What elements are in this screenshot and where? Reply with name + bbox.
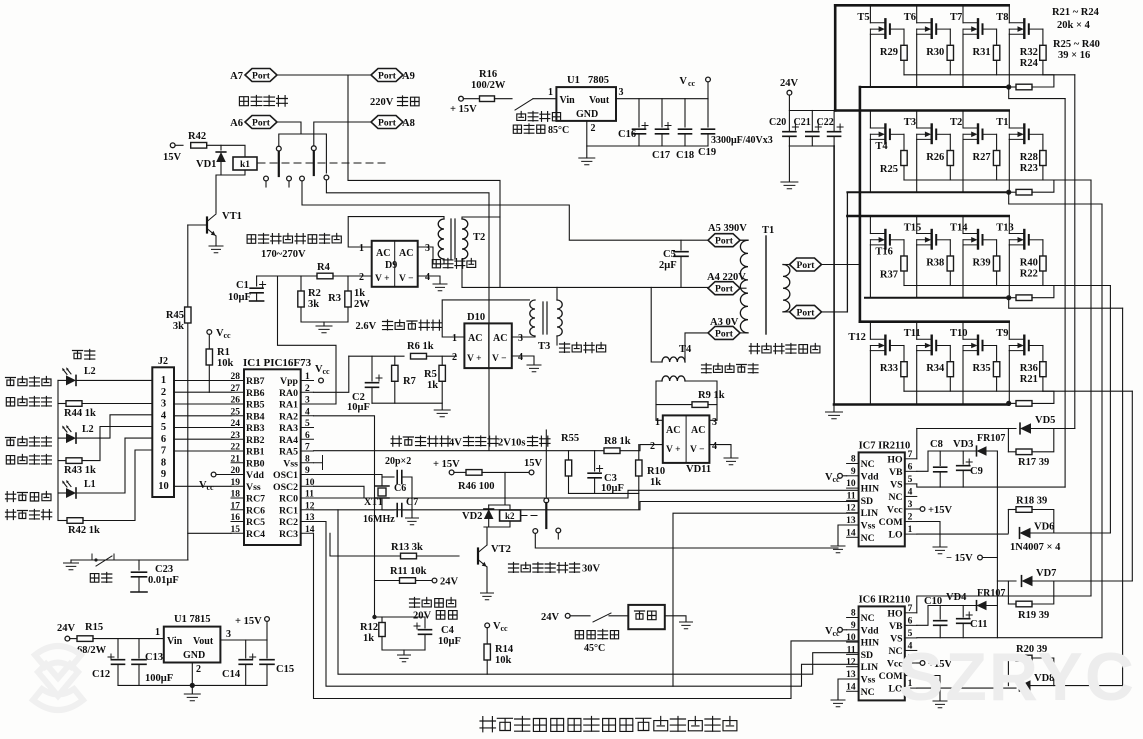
svg-text:15V: 15V <box>163 152 182 163</box>
svg-text:10k: 10k <box>217 358 234 369</box>
capacitor C5 <box>674 252 688 257</box>
svg-text:RC6: RC6 <box>246 505 265 516</box>
resistor R1 <box>206 349 212 365</box>
svg-text:T6: T6 <box>904 12 916 23</box>
wire R17 line b <box>1032 429 1054 452</box>
gate resistor T7 <box>993 45 999 60</box>
wire R4 left <box>257 275 317 277</box>
svg-text:R35: R35 <box>973 363 991 374</box>
resistor R20 <box>1016 655 1032 661</box>
svg-text:R16: R16 <box>479 69 497 80</box>
capacitor C18 <box>679 129 692 134</box>
wire drain T4 <box>869 111 871 129</box>
resistor R16 <box>480 96 495 102</box>
wire gate vertical row4 <box>1131 391 1133 581</box>
wire row4 drain bus <box>860 320 1009 323</box>
driver IC6 IR2110 <box>859 606 905 700</box>
svg-text:R1: R1 <box>217 347 230 358</box>
wire C10 top <box>939 606 941 620</box>
wire C3 top <box>594 451 596 471</box>
wire C11 top <box>962 606 964 618</box>
capacitor C7 <box>397 504 402 517</box>
svg-text:NC: NC <box>861 459 875 470</box>
svg-text:VD11: VD11 <box>686 464 711 475</box>
ground C2x <box>781 182 798 189</box>
stub <box>288 181 290 187</box>
wire gnd stem <box>323 322 325 326</box>
svg-text:RA4: RA4 <box>279 435 298 446</box>
wire T1 sec bottom <box>783 311 790 313</box>
wire C2R7R5 rail <box>372 403 442 409</box>
IC6 right pin 4 NC <box>905 649 917 651</box>
contact k2 b <box>556 528 561 533</box>
svg-text:10μF: 10μF <box>438 636 461 647</box>
gate resistor T11 <box>947 362 953 377</box>
T2 winding left <box>438 219 444 259</box>
svg-text:U1: U1 <box>567 75 580 86</box>
svg-text:Port: Port <box>715 285 734 295</box>
wire C13 bot <box>138 665 140 686</box>
wire R11 right <box>416 580 433 582</box>
svg-text:R7: R7 <box>403 376 416 387</box>
svg-text:C19: C19 <box>698 147 716 158</box>
wire pair1 left <box>1007 429 1009 452</box>
capacitor C17 <box>656 129 669 134</box>
resistor R17 <box>1016 449 1032 455</box>
IC1 left pin 21 RB0 <box>231 462 244 464</box>
T1 core <box>765 236 767 334</box>
svg-text:RB5: RB5 <box>246 400 265 411</box>
title char <box>603 719 616 732</box>
IC1 right pin 9 OSC1 <box>301 474 314 476</box>
wire R18 line b <box>1032 510 1054 534</box>
svg-text:39 × 16: 39 × 16 <box>1058 50 1090 61</box>
wire drain T1 <box>1008 111 1010 129</box>
wire R44 right <box>82 403 152 405</box>
svg-text:15: 15 <box>231 525 241 535</box>
svg-text:R39: R39 <box>973 258 991 269</box>
svg-text:1k: 1k <box>363 633 374 644</box>
svg-text:C22: C22 <box>817 117 834 128</box>
resistor R18 <box>1016 507 1032 513</box>
IC6 right pin 3 Vcc <box>905 662 917 664</box>
title char <box>636 718 651 730</box>
svg-text:C11: C11 <box>970 619 988 630</box>
svg-text:VT2: VT2 <box>491 544 511 555</box>
wire drain T13 <box>1008 216 1010 234</box>
IC6 right pin 7 HO <box>905 612 917 614</box>
T4 primary <box>662 357 685 362</box>
LED L2 red/green 1 <box>66 375 76 385</box>
terminal Vcc IC7 <box>838 473 843 478</box>
resistor R6 <box>411 353 427 359</box>
svg-text:V: V <box>679 76 687 87</box>
wire start line <box>71 559 188 561</box>
wire A6 to contact <box>277 122 301 146</box>
wire gate res down T4 <box>903 167 905 181</box>
svg-text:4: 4 <box>305 407 310 417</box>
svg-text:VD3: VD3 <box>953 439 973 450</box>
svg-text:1: 1 <box>908 525 913 535</box>
svg-text:C23: C23 <box>155 564 173 575</box>
svg-text:R25 ~ R40: R25 ~ R40 <box>1053 39 1100 50</box>
gate resistor T15 <box>947 256 953 271</box>
svg-text:25: 25 <box>231 407 241 417</box>
svg-text:RC1: RC1 <box>279 505 298 516</box>
svg-text:R21: R21 <box>1020 374 1038 385</box>
wire R13 left <box>330 533 401 556</box>
capacitor C10 <box>934 621 947 626</box>
IC1 left pin 22 RB1 <box>231 450 244 452</box>
MOSFET T5 <box>870 23 885 34</box>
wire fan switch a <box>570 615 590 617</box>
wire R15 to Vin <box>93 638 164 640</box>
IC7 left pin 11 SD <box>847 499 859 501</box>
svg-text:T2: T2 <box>950 117 962 128</box>
wire R7 top <box>394 356 396 365</box>
wire R17 line a <box>1008 451 1016 453</box>
wire VD2 lead <box>488 505 490 508</box>
ground fan <box>680 622 693 629</box>
svg-text:24V: 24V <box>541 612 560 623</box>
wire gate lead T12 <box>903 346 905 361</box>
wire R7 bot <box>394 381 396 403</box>
svg-text:Port: Port <box>378 71 397 81</box>
ground 7815b <box>184 694 200 701</box>
wire source T16 <box>869 245 871 298</box>
wire D10 pin3 <box>512 336 535 337</box>
wire gate lead T13 <box>1042 240 1044 255</box>
wire drain T8 <box>1008 5 1010 23</box>
wire C20 top <box>788 111 790 132</box>
svg-text:IC6 IR2110: IC6 IR2110 <box>859 594 911 605</box>
wire gate vertical row3 <box>1109 286 1111 534</box>
svg-text:C9: C9 <box>970 466 983 477</box>
svg-text:1k: 1k <box>650 477 661 488</box>
svg-text:R19 39: R19 39 <box>1018 610 1049 621</box>
wire C19 bottom lead <box>707 134 709 146</box>
IC1 left pin 17 RC6 <box>231 509 244 511</box>
wire gate res down T9 <box>1042 378 1044 392</box>
title char <box>688 716 702 730</box>
svg-text:1: 1 <box>548 87 553 98</box>
svg-text:1N4007 × 4: 1N4007 × 4 <box>1010 542 1061 553</box>
junction batt <box>372 615 376 619</box>
svg-text:RC4: RC4 <box>246 529 265 540</box>
wire A5 hexright <box>740 239 746 241</box>
wire A5 right2 <box>740 239 746 241</box>
port A9 <box>371 69 403 82</box>
wire source T6 <box>916 34 918 87</box>
svg-text:5: 5 <box>305 419 310 429</box>
wire R43 left <box>58 460 66 462</box>
wire gate lead T11 <box>949 346 951 361</box>
svg-text:HO: HO <box>887 608 903 619</box>
wire C18 bottom lead <box>684 134 686 146</box>
resistor R2x row4 <box>1016 401 1032 407</box>
svg-text:1k: 1k <box>427 380 438 391</box>
resistor R7 <box>392 365 398 381</box>
wire k2 bottom <box>484 521 510 527</box>
wire C8 top <box>939 451 941 466</box>
svg-text:1: 1 <box>452 333 457 344</box>
svg-text:18: 18 <box>231 490 241 500</box>
svg-text:R8 1k: R8 1k <box>604 436 631 447</box>
wire VD2 bottom <box>488 519 490 527</box>
svg-text:170~270V: 170~270V <box>261 249 306 260</box>
svg-text:R22: R22 <box>1020 269 1038 280</box>
capacitor C16 <box>633 129 646 134</box>
svg-text:Vss: Vss <box>861 521 876 532</box>
port A8 <box>371 116 403 129</box>
wire k2 top <box>505 472 510 510</box>
wire A8 to contact <box>314 122 371 146</box>
wire OSC1 <box>314 475 383 487</box>
wire A3 hexleft <box>685 333 708 357</box>
svg-text:Port: Port <box>378 118 397 128</box>
IC6 right pin 6 VB <box>905 624 917 626</box>
svg-text:3: 3 <box>161 399 166 410</box>
wire gate lead T4 <box>903 134 905 149</box>
wire R5 top <box>441 356 443 365</box>
svg-text:D10: D10 <box>467 312 485 323</box>
port A4 <box>708 282 740 295</box>
IC1 left pin 23 RB2 <box>231 438 244 440</box>
wire IC7 VS line <box>917 484 1065 487</box>
wire R20 line a <box>1008 657 1016 659</box>
wire Rsrc a row4 <box>1009 402 1016 404</box>
IC7 left pin 8 NC <box>847 463 859 465</box>
resistor R42b <box>67 518 83 524</box>
terminal Vcc R1 <box>207 330 212 335</box>
wire pair3 feed <box>997 580 1016 582</box>
capacitor C3 <box>588 473 601 478</box>
svg-text:HO: HO <box>887 454 903 465</box>
ground VT2 <box>481 593 494 600</box>
svg-text:10μF: 10μF <box>228 292 251 303</box>
wire RC3 bus <box>314 533 859 698</box>
wire VD6 line b <box>1031 532 1111 534</box>
wire gate res down T7 <box>996 61 998 75</box>
wire drain T6 <box>916 5 918 23</box>
svg-text:AC: AC <box>399 248 413 259</box>
svg-text:T3: T3 <box>904 117 916 128</box>
svg-text:Vout: Vout <box>589 95 610 106</box>
T3 winding right <box>557 300 562 336</box>
svg-text:R9 1k: R9 1k <box>698 390 725 401</box>
wire U1 pin2 <box>586 121 588 158</box>
svg-text:R13 3k: R13 3k <box>391 542 423 553</box>
svg-text:13: 13 <box>846 516 856 526</box>
wire gate res down T14 <box>996 272 998 286</box>
svg-text:R12: R12 <box>360 622 378 633</box>
resistor R2 <box>298 291 304 307</box>
svg-text:3: 3 <box>619 87 624 98</box>
wire J2 pin6 to IC1 <box>174 438 231 440</box>
junction source row4 <box>1006 401 1011 406</box>
wire source T11 <box>916 351 918 404</box>
svg-text:12: 12 <box>846 658 856 668</box>
wire C20 bot <box>788 137 790 147</box>
svg-text:Vss: Vss <box>246 482 261 493</box>
svg-text:Port: Port <box>252 118 271 128</box>
wire source T15 <box>916 245 918 298</box>
title char <box>568 719 581 732</box>
wire C12 bot <box>117 665 119 686</box>
T4 secondary <box>662 376 685 381</box>
relay coil k2 <box>500 510 521 521</box>
text 市电输入 <box>239 97 248 106</box>
wire 2.6V line a <box>349 355 404 357</box>
wire C5 bottom <box>680 257 682 288</box>
svg-text:RC3: RC3 <box>279 529 298 540</box>
wire node A rail <box>859 87 862 322</box>
title char <box>620 719 633 732</box>
wire fan right <box>665 616 686 621</box>
svg-text:AC: AC <box>468 333 482 344</box>
wire C19 top lead <box>707 99 709 127</box>
IC7 right pin 3 Vcc <box>905 508 917 510</box>
switch pole k2 <box>545 503 547 528</box>
wire C17 bottom lead <box>661 134 663 146</box>
terminal +15V R16 <box>459 96 464 101</box>
svg-text:HIN: HIN <box>861 638 880 649</box>
text 温控开关 <box>575 631 583 639</box>
wire R3 top <box>347 276 349 307</box>
svg-text:3: 3 <box>425 243 430 254</box>
svg-text:RB3: RB3 <box>246 423 265 434</box>
rectifier D11 <box>663 415 710 463</box>
IC1 left pin 24 RB3 <box>231 427 244 429</box>
svg-text:RA0: RA0 <box>279 388 298 399</box>
dashed relay link <box>258 162 390 164</box>
capacitor C11 <box>957 619 970 624</box>
svg-text:16MHz: 16MHz <box>363 514 395 525</box>
svg-text:NC: NC <box>861 613 875 624</box>
wire Rsrc a row1 <box>1009 86 1016 88</box>
svg-text:21: 21 <box>231 454 241 464</box>
wire batt gnd <box>403 650 405 654</box>
capacitor C23 <box>132 572 147 577</box>
terminal +15V R46 <box>449 470 454 475</box>
wire R42b left <box>58 520 67 522</box>
gate resistor T12 <box>901 362 907 377</box>
wire C23 bot <box>138 577 140 592</box>
terminal Vcc <box>706 77 711 82</box>
svg-text:20p×2: 20p×2 <box>385 456 411 467</box>
ground D11 <box>724 458 738 465</box>
wire C17 top lead <box>661 99 663 127</box>
wire R8 to D11 <box>620 445 663 451</box>
svg-text:R42 1k: R42 1k <box>68 525 100 536</box>
wire RA0 riser <box>314 356 349 392</box>
svg-text:10: 10 <box>846 633 856 643</box>
switch 启动 <box>92 554 114 566</box>
wire 7815 gnd rail <box>118 684 267 686</box>
port A6 <box>245 116 277 129</box>
svg-text:6: 6 <box>908 616 913 626</box>
wire gate lead T7 <box>996 29 998 44</box>
svg-text:RA5: RA5 <box>279 447 298 458</box>
svg-text:FR107: FR107 <box>977 588 1005 599</box>
svg-text:15V: 15V <box>524 458 543 469</box>
svg-text:4: 4 <box>518 352 523 363</box>
MOSFET T9 <box>1009 339 1024 350</box>
port A7 <box>245 69 277 82</box>
wire C2x gnd stem <box>788 146 790 181</box>
svg-text:T1: T1 <box>996 117 1008 128</box>
svg-text:VD2: VD2 <box>462 511 482 522</box>
terminal +15V 7815 <box>265 617 270 622</box>
text 红色逆变 <box>6 378 16 386</box>
wire gate bus row4 <box>904 390 1132 392</box>
diode VD5 <box>1020 423 1031 434</box>
wire T1 pri tap A3 <box>746 332 748 334</box>
wire IC7 HO <box>916 429 918 459</box>
ground 2.6V rail <box>434 410 450 417</box>
wire OSC2 <box>314 486 383 498</box>
wire row3 VS riser <box>1009 298 1123 309</box>
wire gate lead T16 <box>903 240 905 255</box>
wire C4 top <box>424 617 426 628</box>
svg-text:RB6: RB6 <box>246 388 265 399</box>
switch pole 1 <box>278 152 280 176</box>
svg-text:C17: C17 <box>652 150 670 161</box>
svg-text:C7: C7 <box>406 497 418 508</box>
svg-text:VD4: VD4 <box>946 592 967 603</box>
port T1 lower <box>790 305 822 318</box>
wire T2 pri bottom to D9 pin3 <box>418 247 444 264</box>
text 市电取样 <box>432 260 440 268</box>
C23 end bar <box>131 591 147 593</box>
svg-text:100μF: 100μF <box>145 673 173 684</box>
svg-text:R18 39: R18 39 <box>1016 496 1047 507</box>
svg-text:+ 15V: + 15V <box>235 616 262 627</box>
IC6 left pin 10 HIN <box>847 641 859 643</box>
IC7 left pin 14 NC <box>847 536 859 538</box>
svg-text:LO: LO <box>888 530 903 541</box>
wire R12 bot <box>382 637 425 651</box>
wire C9 top <box>962 451 964 464</box>
wire VD7 line b <box>1033 580 1054 582</box>
svg-text:3k: 3k <box>173 321 184 332</box>
svg-text:T13: T13 <box>996 223 1014 234</box>
svg-text:R33: R33 <box>880 363 898 374</box>
wire T4 sec right <box>685 381 717 420</box>
svg-text:R17 39: R17 39 <box>1018 457 1049 468</box>
text 红色充电 <box>6 438 16 446</box>
wire gate res down T13 <box>1042 272 1044 286</box>
wire R1 down <box>208 365 210 392</box>
wire gate res down T16 <box>903 272 905 286</box>
svg-text:R30: R30 <box>926 47 944 58</box>
svg-text:SD: SD <box>861 496 874 507</box>
svg-text:9: 9 <box>305 466 310 476</box>
wire 7815 out <box>220 639 267 641</box>
resistor R2x row3 <box>1016 295 1032 301</box>
MOSFET T6 <box>917 23 932 34</box>
svg-text:RC2: RC2 <box>279 517 298 528</box>
wire source T13 <box>1008 245 1010 298</box>
gate resistor T6 <box>947 45 953 60</box>
wire drain T7 <box>962 5 964 23</box>
svg-text:4V: 4V <box>449 438 462 449</box>
svg-text:J2: J2 <box>158 356 168 367</box>
svg-text:T15: T15 <box>904 223 922 234</box>
svg-text:T3: T3 <box>538 341 550 352</box>
MOSFET T2 <box>963 128 978 139</box>
svg-text:R6 1k: R6 1k <box>407 341 434 352</box>
